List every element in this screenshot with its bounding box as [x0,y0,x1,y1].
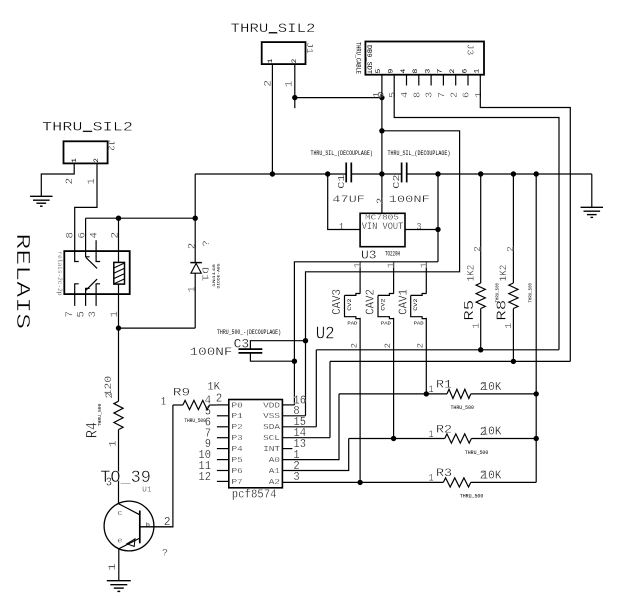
wire SDA riser to U2 [315,350,317,427]
wire +5V column [437,174,439,262]
svg-text:THRU_500: THRU_500 [495,283,501,303]
svg-text:5: 5 [76,311,87,318]
svg-text:_INT: _INT [256,446,280,454]
svg-text:7: 7 [437,68,444,73]
svg-text:RELAIS: RELAIS [11,233,33,329]
node rail junction R5 [478,171,483,176]
relay K1 upper blade [86,258,97,269]
relay K1 pin 5 contact [86,288,90,306]
node CAV1 to R1 row [424,391,429,396]
resistor R4 top wire [118,328,120,401]
svg-text:1: 1 [418,262,429,269]
svg-text:P7: P7 [232,479,244,487]
svg-text:R5: R5 [462,300,478,321]
svg-text:P4: P4 [232,446,244,454]
wire D1 bottom to R4 [119,327,196,329]
node R2 right junction [534,436,539,441]
svg-text:2: 2 [383,343,393,349]
svg-text:J2: J2 [106,140,117,152]
wire CAV3 pin2 to R3 row [359,318,361,483]
wire U2 SCL stub [282,437,330,439]
svg-text:8: 8 [411,92,422,98]
svg-text:5: 5 [387,92,398,98]
svg-text:1: 1 [474,68,481,73]
svg-text:3: 3 [293,470,299,484]
resistor R3 [443,478,471,487]
svg-text:CV2: CV2 [379,299,386,311]
relay K1 pin 6 contact [86,218,90,257]
svg-text:pcf8574: pcf8574 [232,488,277,502]
svg-text:2: 2 [349,343,359,349]
svg-text:THRU_500_-(DECOUPLAGE): THRU_500_-(DECOUPLAGE) [217,329,281,336]
ic U2 pin P2 stub [217,426,229,428]
svg-text:CAV3: CAV3 [330,289,344,315]
wire J3 pin5 to SDA riser [394,75,559,350]
diode D1 wire top [194,174,196,263]
transistor U1 emitter wire [118,548,120,580]
svg-text:12: 12 [198,470,211,484]
svg-text:1: 1 [86,178,97,185]
relay K1 coil [114,262,125,284]
svg-text:DB9_SDT: DB9_SDT [365,45,372,74]
connector CAV3 bracket [345,294,361,296]
svg-text:1: 1 [107,440,118,446]
svg-text:P6: P6 [232,468,244,476]
relay K1 pin 3 contact [96,284,100,306]
svg-text:10K: 10K [481,424,501,438]
svg-text:THRU_500: THRU_500 [451,404,475,411]
svg-text:100NF: 100NF [190,347,233,359]
transistor U1 base wire [140,526,174,528]
svg-text:1: 1 [187,286,198,293]
svg-text:3: 3 [87,311,98,318]
svg-text:relais-2c-2p: relais-2c-2p [55,252,63,296]
svg-text:R3: R3 [436,468,452,480]
relay K1 pin 4 contact [96,251,100,261]
svg-text:2: 2 [375,198,386,205]
svg-text:2: 2 [216,392,223,406]
wire J1 pin2 to +12V rail [271,64,273,174]
wire pull-up column +5V [535,174,537,482]
ground GND3 bottom [107,580,131,582]
svg-text:P0: P0 [232,402,244,410]
svg-text:PAD: PAD [347,320,357,326]
svg-text:U1: U1 [142,487,152,495]
node rail junction GND column [379,171,384,176]
resistor R1 right wire [471,393,536,395]
svg-text:2: 2 [416,343,426,349]
wire J2 pin1 to relay pin8 [75,163,97,251]
wire J1 pin1 to J3 pin10 [295,97,382,99]
svg-text:THRU_CABLE: THRU_CABLE [355,42,362,74]
transistor U1 emitter diagonal [119,538,140,549]
svg-text:J1: J1 [304,42,315,54]
resistor R9 [183,400,210,409]
svg-text:THRU_SIL_(DECOUPLAGE): THRU_SIL_(DECOUPLAGE) [311,150,373,157]
svg-text:1: 1 [71,158,78,163]
wire CAV1 pin2 to R1 row [425,318,427,394]
wire U2 VSS stub [282,415,305,417]
wire +5V bus [294,262,438,405]
svg-text:1: 1 [284,81,295,88]
resistor R3 right wire [471,481,536,483]
ic U2 pin P7 stub [217,480,229,482]
node J3.10 junction [379,95,384,100]
svg-text:100NF: 100NF [389,194,430,206]
relay K1 coil pin 2 wire [118,218,120,262]
svg-text:R8: R8 [495,300,511,321]
svg-text:CAV1: CAV1 [396,289,410,315]
wire SDA bus [316,349,559,351]
svg-text:1: 1 [386,262,397,269]
svg-text:2: 2 [291,58,298,63]
svg-text:4: 4 [399,91,410,98]
svg-text:1: 1 [429,429,434,441]
svg-text:2: 2 [448,92,459,98]
wire R9 to transistor base [140,405,173,527]
wire SCL bus [330,360,570,362]
svg-text:SCL: SCL [263,435,280,443]
node GND column junction at y130 [379,128,384,133]
svg-text:PAD: PAD [414,320,424,326]
ic U2 pin P1 stub [217,415,229,417]
svg-text:1: 1 [161,397,166,409]
svg-text:2: 2 [93,158,100,163]
wire C3 bottom plate to VDD column [250,353,294,361]
resistor R9 right wire [209,404,217,406]
relay K1 lower blade [86,279,97,290]
resistor R5 [480,174,482,283]
connector J3 unconnected pin stubs [406,75,408,86]
svg-text:b: b [146,522,151,529]
svg-text:3: 3 [106,476,112,490]
svg-text:1: 1 [473,91,484,98]
svg-text:D1: D1 [200,267,211,282]
svg-text:R2: R2 [436,424,452,436]
node relay coil junction [116,216,121,221]
svg-text:10K: 10K [481,468,501,482]
svg-text:0: 0 [376,92,387,98]
svg-text:THRU_500: THRU_500 [184,417,206,424]
svg-text:?: ? [201,240,212,246]
wire SCL riser to U2 [329,361,331,437]
svg-text:C1: C1 [337,175,347,189]
svg-text:1K2: 1K2 [466,265,477,282]
resistor R4 [114,401,123,429]
svg-text:P2: P2 [232,424,244,432]
connector J3 [365,42,484,75]
resistor R2 right wire [471,438,536,440]
svg-text:R9: R9 [173,388,190,400]
svg-text:VSS: VSS [263,413,280,421]
svg-text:P1: P1 [232,413,244,421]
svg-text:A0: A0 [269,457,281,465]
svg-text:U2: U2 [316,324,335,344]
svg-text:P5: P5 [232,457,244,465]
svg-text:THRU_500: THRU_500 [465,449,489,456]
svg-text:2: 2 [505,246,516,252]
svg-text:10K: 10K [481,380,501,394]
svg-text:1: 1 [352,262,363,269]
wire J2 pin2 to ground [41,163,74,196]
ic U2 pin P5 stub [217,459,229,461]
node rail junction J1.2 [270,171,275,176]
svg-text:TO220H: TO220H [385,251,400,258]
ic U2 pin P0 stub [217,404,229,406]
transistor U1 base bar [139,511,141,544]
svg-text:1: 1 [429,473,434,485]
svg-text:5: 5 [375,68,382,73]
relay K1 pin 7 contact [75,284,79,306]
ic U2 pcf8574 body [229,400,283,488]
wire C3 top plate to GND column [250,341,305,349]
connector J2 [64,141,108,163]
svg-text:4: 4 [400,68,407,73]
wire rail right end to ground [591,174,593,207]
svg-text:1: 1 [339,223,344,234]
wire U3 VIN to rail [328,174,360,230]
svg-text:8: 8 [412,68,419,73]
node D1 top junction [193,216,198,221]
wire A0 staircase [282,394,339,460]
svg-text:3: 3 [424,68,431,73]
svg-text:THRU_500: THRU_500 [528,283,534,303]
wire U3 VOUT to +5V column [405,229,438,231]
svg-text:A2: A2 [269,479,281,487]
svg-text:7: 7 [64,311,75,318]
node J1.1 junction [292,95,297,100]
svg-text:1: 1 [107,563,118,571]
node rail junction VOUT column [435,171,440,176]
connector CAV1 bracket [411,294,427,296]
capacitor C1 plates [345,163,347,183]
svg-text:6: 6 [461,68,468,73]
node R1 right junction [534,391,539,396]
ground GND1 [30,195,53,197]
svg-text:P3: P3 [232,435,244,443]
relay K1 body [64,251,129,294]
svg-text:2: 2 [64,178,75,185]
svg-text:2: 2 [187,243,198,250]
svg-text:U3: U3 [361,249,377,263]
svg-text:J3: J3 [464,44,475,56]
svg-text:?: ? [162,548,168,560]
resistor R1 row wire [339,393,447,395]
svg-text:A1: A1 [269,468,281,476]
resistor R4 bottom wire [118,430,120,504]
node rail junction U3.1 [325,171,330,176]
svg-text:THRU_SIL2: THRU_SIL2 [42,120,133,135]
ic U2 pin P6 stub [217,470,229,472]
svg-text:VDD: VDD [263,402,280,410]
transistor U1 collector diagonal [118,504,139,515]
diode D1 cathode bar [190,262,202,264]
svg-text:CV2: CV2 [412,299,419,311]
node R5 to SDA bus [478,347,483,352]
svg-text:1: 1 [470,322,481,329]
regulator U3 MC7805 body [360,213,405,246]
svg-text:THRU_SIL_(DECOUPLAGE): THRU_SIL_(DECOUPLAGE) [388,150,451,157]
connector CAV1 pin1 stub [425,262,427,294]
ic U2 pin P4 stub [217,448,229,450]
connector CAV2 pin1 stub [393,262,395,294]
diode D1 wire bottom [194,273,196,328]
svg-text:R1: R1 [436,380,452,392]
wire CAV2 pin2 to R2 row [393,318,395,439]
relay K1 pin 8 contact [75,251,79,261]
svg-text:SDA: SDA [263,424,280,432]
transistor U1 circle [104,501,154,551]
svg-text:THRU_SIL2: THRU_SIL2 [231,21,316,36]
node R4 top junction [116,325,121,330]
node R8 to SCL bus [511,359,516,364]
svg-text:1: 1 [429,384,434,396]
svg-text:PAD: PAD [381,320,391,326]
svg-text:e: e [117,537,122,545]
connector CAV2 bracket [378,294,394,296]
svg-text:2: 2 [449,68,456,73]
capacitor C3 plates [239,348,263,350]
resistor R8 [512,174,514,283]
ic U2 pin P3 stub [217,437,229,439]
svg-text:THRU_500: THRU_500 [460,493,484,500]
diode D1 triangle [191,263,201,273]
wire A1 staircase [282,439,348,471]
svg-text:2: 2 [472,246,483,252]
resistor R2 row wire [349,438,445,440]
resistor R1 [447,389,471,398]
svg-text:1: 1 [267,58,274,63]
transistor U1 emitter arrow [127,539,135,547]
connector CAV3 pin1 stub [359,262,361,294]
svg-text:1: 1 [503,322,514,329]
wire U2 VDD stub [282,404,294,406]
svg-text:9: 9 [388,68,395,73]
svg-text:C3: C3 [234,338,250,352]
svg-text:8: 8 [65,232,76,239]
node CAV2 to R2 row [391,436,396,441]
svg-text:3: 3 [417,223,422,234]
svg-text:4: 4 [89,232,100,239]
svg-text:47UF: 47UF [332,194,365,206]
resistor R3 row wire / A2 row [282,481,443,483]
wire GND/power rail horizontal [195,173,346,175]
svg-text:DIODE-A05: DIODE-A05 [218,263,222,289]
svg-text:1N4148: 1N4148 [213,263,217,287]
wire U2 SDA stub [282,426,316,428]
node VOUT junction [435,227,440,232]
svg-text:THRU_500: THRU_500 [97,403,103,426]
resistor R9 left wire [173,404,183,406]
svg-text:2: 2 [104,392,115,398]
svg-text:CV2: CV2 [346,299,353,311]
svg-text:3: 3 [424,92,435,98]
wire U2 _INT stub [282,448,292,450]
resistor R2 [445,434,472,443]
svg-text:c: c [117,510,122,518]
wire GND branch to bus2 [306,131,460,416]
node rail junction R8 [511,171,516,176]
node rail junction pullup column [534,171,539,176]
relay K1 coil pin 1 wire [118,284,120,328]
wire J3 pin1 to SCL riser [480,75,570,362]
capacitor C2 plates [401,163,403,183]
wire relay top feed [86,217,196,219]
node CAV3 to A2/R3 row [357,480,362,485]
connector J1 [262,42,306,64]
node VDD column C3 junction [292,359,297,364]
node C3 top junction [303,338,308,343]
svg-text:C2: C2 [392,175,402,189]
svg-text:CAV2: CAV2 [364,289,378,315]
svg-text:7: 7 [436,92,447,98]
svg-text:1K2: 1K2 [498,265,509,282]
wire J1 pin1 stub [294,64,296,108]
ground GND2 right [581,206,604,208]
svg-text:6: 6 [461,92,472,98]
svg-text:VIN VOUT: VIN VOUT [362,222,404,233]
relay K1 pin 4 stub [95,240,97,251]
wire J3 pin10 / GND column [381,75,383,214]
